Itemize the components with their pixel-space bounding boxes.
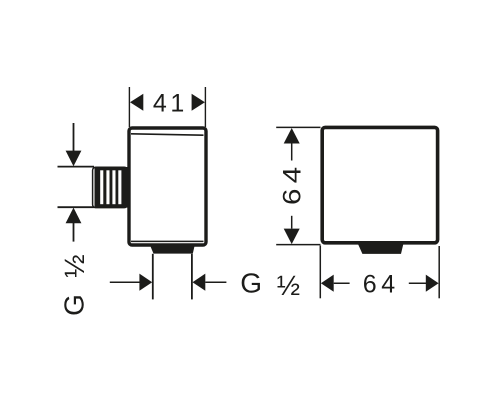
outlet dimension: right arrow (pointing left) bbox=[193, 274, 206, 291]
svg-text:G: G bbox=[240, 267, 262, 298]
thread dimension: upper line segment bbox=[73, 123, 75, 152]
outlet dimension: left leader line bbox=[110, 281, 140, 283]
threaded inlet connector G1/2 (hatched block) bbox=[93, 167, 128, 208]
bottom dimension 64: right extension line bbox=[438, 246, 440, 298]
outlet dimension: right leader line bbox=[205, 281, 226, 283]
thread dimension: bottom extension line bbox=[58, 206, 95, 208]
svg-text:64: 64 bbox=[278, 162, 306, 205]
bottom dimension 64: left line segment bbox=[334, 282, 350, 284]
thread dimension: top extension line bbox=[58, 166, 95, 168]
vertical dimension 64: upper line segment bbox=[291, 144, 293, 161]
bottom dimension 64: right line segment bbox=[409, 282, 427, 284]
vertical dimension 64: up arrow bbox=[284, 128, 300, 144]
outlet dimension (left view): left extension line bbox=[152, 254, 154, 300]
svg-text:½: ½ bbox=[277, 270, 300, 301]
right view: bottom outlet tab bbox=[357, 242, 404, 254]
dimension 41: left arrow bbox=[130, 94, 143, 111]
body inner bottom edge line bbox=[131, 240, 204, 242]
svg-text:½: ½ bbox=[59, 254, 90, 277]
dimension 41: right arrow bbox=[192, 94, 205, 111]
body inner top edge line bbox=[131, 134, 204, 135]
bottom dimension 64: left arrow bbox=[321, 275, 334, 292]
vertical dimension 64: bottom extension line bbox=[276, 244, 320, 246]
outlet dimension (left view): right extension line bbox=[191, 254, 193, 300]
vertical dimension 64: down arrow bbox=[284, 229, 300, 245]
vertical dimension 64: top extension line bbox=[276, 126, 320, 128]
svg-text:41: 41 bbox=[153, 89, 188, 117]
svg-text:G: G bbox=[59, 294, 90, 316]
bottom outlet nut (left view) bbox=[150, 244, 196, 254]
bottom dimension 64: left extension line bbox=[319, 246, 321, 299]
left view: wall outlet body (side view) bbox=[129, 128, 206, 245]
thread dimension: up arrow bbox=[66, 208, 82, 224]
dimension 41: left extension line bbox=[128, 87, 130, 127]
bottom dimension 64: right arrow bbox=[426, 275, 439, 292]
svg-text:64: 64 bbox=[363, 270, 400, 298]
thread dimension: down arrow bbox=[66, 151, 82, 167]
thread dimension: lower line segment bbox=[73, 223, 75, 242]
vertical dimension 64: lower line segment bbox=[291, 216, 293, 229]
dimension 41: right extension line bbox=[204, 87, 206, 127]
outlet dimension: left arrow (pointing right) bbox=[139, 274, 152, 291]
right view: front face square bbox=[322, 127, 437, 242]
